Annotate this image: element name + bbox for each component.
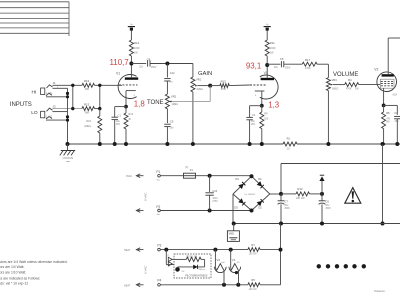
triode V1a: [116, 64, 138, 107]
svg-text:1n: 1n: [170, 82, 173, 84]
node dots on ground bus: [66, 142, 400, 146]
flag 9VAC (neutral): [136, 209, 143, 213]
wire R4 to V2 grid: [359, 84, 381, 86]
resistor R15: [82, 103, 100, 115]
wire bridge plus to C7 node: [270, 192, 283, 196]
wire VR1 wiper to VR2 wiper: [172, 86, 211, 102]
wire jack sleeves to ground bus: [66, 88, 69, 144]
svg-text:1MEG: 1MEG: [332, 88, 339, 90]
resistor R5: [248, 278, 281, 291]
svg-text:5W: 5W: [386, 122, 390, 124]
red voltage label 110,7: [110, 58, 129, 67]
svg-text:9VAC: 9VAC: [126, 175, 132, 178]
fuse F1 on P1 rail: [160, 167, 251, 178]
svg-text:VOLUME: VOLUME: [333, 72, 358, 78]
terminal P4: [157, 279, 161, 287]
svg-text:93,1: 93,1: [246, 61, 261, 70]
svg-text:C5: C5: [280, 57, 284, 61]
label LO: [31, 110, 38, 116]
svg-text:D6: D6: [182, 271, 186, 273]
resistor R17: [302, 58, 317, 70]
svg-text:100 1W: 100 1W: [249, 254, 258, 256]
label 6 VAC vertical: [144, 265, 148, 274]
power flag +V (stage 2): [264, 24, 271, 40]
svg-text:470K: 470K: [305, 67, 311, 70]
svg-text:R9: R9: [264, 111, 268, 115]
svg-text:25V: 25V: [251, 124, 256, 126]
svg-text:3K: 3K: [128, 119, 131, 121]
svg-text:HEAT: HEAT: [124, 284, 131, 287]
svg-text:100n: 100n: [212, 198, 218, 200]
svg-text:R11: R11: [270, 41, 275, 45]
svg-text:D5: D5: [234, 206, 238, 210]
svg-text:10u: 10u: [116, 121, 121, 123]
svg-text:VR3: VR3: [332, 78, 338, 82]
label Patents: [374, 289, 385, 293]
svg-text:P3: P3: [157, 243, 161, 247]
svg-text:P4: P4: [157, 279, 161, 283]
capacitor C1 and resistor R10 (V1a cathode): [112, 105, 134, 144]
svg-text:P1: P1: [156, 170, 160, 174]
svg-text:250V: 250V: [151, 67, 157, 69]
svg-text:R19: R19: [86, 119, 91, 123]
svg-text:1MEG: 1MEG: [196, 89, 203, 91]
svg-text:1MEG: 1MEG: [172, 104, 179, 106]
capacitor C12 (tone): [164, 64, 175, 95]
svg-text:1W: 1W: [355, 88, 359, 91]
svg-text:16u: 16u: [284, 205, 289, 207]
svg-text:C6: C6: [325, 199, 329, 203]
node VR1 wiper: [208, 84, 212, 88]
resistor R14 (plate load): [129, 40, 140, 64]
svg-text:16u: 16u: [325, 205, 330, 207]
potentiometer VR2 (TONE): [165, 94, 178, 109]
svg-text:R8: R8: [386, 111, 390, 115]
svg-text:22n: 22n: [274, 67, 279, 69]
svg-text:10n: 10n: [170, 128, 175, 130]
svg-text:V1: V1: [116, 72, 120, 76]
wire ground link (right): [381, 144, 385, 226]
svg-text:9ac: 9ac: [157, 179, 161, 181]
svg-text:J1: J1: [53, 81, 57, 85]
resistor R8 and capacitor C3 (V2 cathode): [382, 104, 400, 145]
svg-text:INPUTS: INPUTS: [10, 102, 32, 108]
svg-text:D4: D4: [258, 177, 262, 181]
capacitor C6 (filter): [319, 194, 332, 224]
svg-text:6CA: 6CA: [393, 94, 398, 97]
heater bottom rail: [160, 283, 248, 287]
svg-text:HI: HI: [32, 90, 37, 96]
red voltage label 93,1: [246, 61, 261, 70]
title block table (cropped at left edge): [0, 2, 69, 36]
node plate V1a: [129, 62, 133, 66]
svg-text:D7: D7: [166, 255, 170, 257]
wire R17 to VR3: [317, 64, 328, 77]
svg-text:100K: 100K: [270, 47, 276, 50]
svg-text:6: 6: [255, 95, 257, 97]
B+ supply flag: [319, 175, 324, 196]
wire C8 node to GAIN pot: [165, 62, 193, 78]
chassis ground: [60, 144, 75, 161]
svg-text:1W: 1W: [270, 52, 274, 55]
svg-text:470K: 470K: [346, 88, 352, 91]
svg-text:ofarads: val * 10 exp-12: ofarads: val * 10 exp-12: [0, 282, 28, 286]
input jack J2 (LO): [41, 105, 82, 121]
svg-text:4 x 1N4007: 4 x 1N4007: [244, 194, 256, 196]
svg-text:450V: 450V: [325, 208, 331, 210]
power flag +V (stage 1): [128, 24, 135, 40]
svg-text:Resistors are 1/4 Watt unless: Resistors are 1/4 Watt unless otherwise …: [0, 260, 68, 264]
wire grid node (R16/R15 junction to V1 grid): [98, 84, 122, 111]
resistor R12 (filter): [281, 187, 322, 200]
capacitor C7 (filter): [278, 194, 291, 224]
svg-text:C1: C1: [118, 114, 122, 118]
wire J1 shunt to J2 tip: [71, 84, 74, 111]
svg-text:R1: R1: [287, 137, 291, 141]
svg-text:CHASSIS: CHASSIS: [63, 157, 74, 160]
svg-text:(F): (F): [185, 167, 188, 169]
heater top rail: [160, 248, 248, 252]
svg-text:V2: V2: [374, 68, 378, 72]
notes text block: [0, 260, 68, 286]
svg-text:110,7: 110,7: [110, 58, 129, 67]
svg-text:R7: R7: [251, 243, 255, 247]
svg-text:J2: J2: [53, 105, 57, 109]
svg-text:values are indicated as Follow: values are indicated as Follows: [0, 276, 40, 280]
triode V1b: [250, 65, 278, 106]
svg-text:1W: 1W: [134, 52, 138, 55]
svg-text:1,3: 1,3: [268, 101, 280, 110]
svg-text:Patents:: Patents:: [374, 289, 385, 293]
earth terminal box: [227, 224, 239, 242]
svg-text:3: 3: [134, 95, 136, 97]
wire heater center-tap to ground: [279, 224, 283, 285]
svg-text:1,8: 1,8: [134, 99, 146, 108]
svg-text:6 VAC: 6 VAC: [144, 265, 148, 274]
svg-text:275V: 275V: [212, 201, 218, 203]
svg-text:D3: D3: [235, 177, 239, 181]
svg-text:R12: R12: [297, 187, 303, 191]
pilot lamp brightness circuit (dashed box): [166, 250, 211, 278]
flag 9VAC (line): [126, 174, 144, 178]
svg-text:HEAT: HEAT: [124, 249, 131, 252]
resistor R11 (plate load): [265, 40, 276, 65]
svg-text:esistors are 1/10 Watt.: esistors are 1/10 Watt.: [0, 271, 26, 275]
svg-text:10u: 10u: [251, 121, 256, 123]
svg-text:esistors are 1/4 Watt.: esistors are 1/4 Watt.: [0, 265, 24, 269]
capacitor C9: [164, 109, 174, 144]
capacitor C8 (coupling): [131, 57, 167, 68]
capacitor C4 and resistor R9 (V1b cathode): [246, 104, 269, 144]
svg-text:470: 470: [386, 118, 391, 120]
ground bus wire: [68, 143, 400, 145]
red voltage label 1,8: [134, 99, 146, 108]
resistor R4 (grid stopper): [345, 78, 360, 90]
label HI: [32, 90, 37, 96]
wire bridge minus to lower bus: [232, 194, 234, 224]
heater filament V1: [229, 250, 241, 285]
capacitor C10 (across mains): [205, 174, 218, 213]
svg-text:10: 10: [287, 147, 290, 150]
svg-text:1K5: 1K5: [264, 119, 269, 121]
node plate V1b: [265, 63, 269, 67]
label INPUTS: [10, 102, 32, 108]
svg-text:VR2: VR2: [171, 94, 177, 98]
wire P2 rail: [160, 210, 251, 212]
svg-text:C10: C10: [212, 189, 217, 193]
wire B+ rail to edge: [281, 164, 400, 194]
label VOLUME: [333, 72, 358, 78]
svg-text:D2: D2: [258, 206, 262, 210]
warning triangle (high voltage): [345, 188, 361, 204]
svg-text:100K: 100K: [134, 47, 140, 50]
svg-text:1_NC: 1_NC: [46, 116, 52, 119]
resistor R13: [220, 79, 230, 91]
svg-text:TONE: TONE: [147, 100, 164, 106]
svg-text:C12: C12: [170, 71, 175, 75]
svg-text:F1: F1: [190, 168, 194, 172]
terminal P3: [157, 243, 161, 251]
svg-text:V1: V1: [232, 258, 236, 262]
svg-text:R15: R15: [84, 103, 90, 107]
decorative dot row: [317, 264, 366, 268]
svg-text:VB01: VB01: [229, 233, 236, 236]
svg-text:R10: R10: [128, 112, 133, 116]
svg-text:450V: 450V: [284, 208, 290, 210]
svg-text:VR1: VR1: [196, 78, 202, 82]
svg-text:9 VAC: 9 VAC: [144, 192, 148, 201]
svg-text:22K 1W: 22K 1W: [296, 197, 305, 200]
svg-text:C9: C9: [170, 119, 174, 123]
pentode V2 (output tube): [374, 38, 397, 105]
potentiometer VR3 (VOLUME): [326, 78, 344, 144]
svg-text:6p8: 6p8: [221, 262, 225, 264]
terminal P1: [156, 170, 161, 181]
svg-text:Vp: Vp: [130, 24, 133, 26]
svg-text:250V: 250V: [285, 67, 291, 69]
label 9 VAC vertical: [144, 192, 148, 201]
svg-text:68K: 68K: [85, 88, 90, 91]
potentiometer VR1 (GAIN): [191, 77, 210, 144]
resistor R19 (1MEG grid leak): [84, 109, 102, 144]
svg-text:9ac: 9ac: [157, 214, 161, 216]
svg-text:R16: R16: [84, 79, 90, 83]
label TONE: [147, 100, 164, 106]
svg-text:1MEG: 1MEG: [84, 125, 91, 128]
svg-text:100 1W: 100 1W: [249, 289, 258, 291]
svg-text:LO: LO: [31, 110, 38, 116]
heater filament V2: [215, 250, 227, 285]
flag 6VAC (a): [124, 248, 144, 252]
svg-text:R14: R14: [134, 41, 140, 45]
red voltage label 1,3: [268, 101, 280, 110]
resistor R7: [248, 243, 281, 256]
resistor R16: [82, 79, 100, 91]
svg-text:GAIN: GAIN: [198, 71, 212, 77]
lower ground bus: [232, 222, 400, 226]
svg-text:4/5: 4/5: [237, 262, 241, 264]
svg-text:68K: 68K: [85, 111, 90, 114]
svg-text:C7: C7: [284, 199, 288, 203]
svg-text:1_NC: 1_NC: [46, 92, 52, 95]
bridge rectifier D2-D5: [233, 174, 270, 212]
terminal P2: [156, 205, 161, 216]
svg-text:470K: 470K: [221, 88, 227, 91]
svg-text:C4: C4: [252, 113, 256, 117]
svg-text:V2: V2: [216, 258, 220, 262]
svg-text:C3: C3: [394, 111, 398, 115]
svg-text:R17: R17: [305, 58, 311, 62]
flag 6VAC (b): [124, 283, 144, 287]
label GAIN: [198, 71, 212, 77]
wire R13 to V1b grid: [210, 84, 250, 87]
wire V2 plate to edge: [388, 37, 400, 39]
svg-text:PILOT BRIGHTNESS: PILOT BRIGHTNESS: [185, 275, 208, 277]
svg-text:R5: R5: [251, 278, 255, 282]
svg-text:25V: 25V: [116, 124, 121, 126]
svg-text:1N4col: 1N4col: [198, 269, 205, 271]
svg-text:P2: P2: [156, 205, 160, 209]
resistor R1 (bus): [283, 137, 297, 151]
svg-text:Vp: Vp: [266, 24, 269, 26]
capacitor C5 (coupling): [267, 57, 302, 70]
svg-text:R4: R4: [348, 78, 352, 82]
input jack J1 (HI): [41, 81, 82, 97]
svg-text:22n: 22n: [139, 66, 144, 68]
